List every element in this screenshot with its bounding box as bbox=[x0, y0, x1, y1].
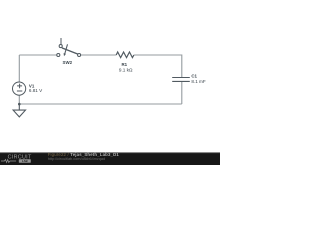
svg-text:8.1 mF: 8.1 mF bbox=[191, 79, 205, 84]
svg-text:9.1 kΩ: 9.1 kΩ bbox=[119, 67, 133, 72]
junction node dot bbox=[18, 103, 21, 106]
resistor R1 bbox=[116, 52, 134, 58]
wire V1 minus terminal to bottom rail bbox=[18, 95, 20, 104]
switch SW2 bbox=[57, 38, 81, 57]
svg-text:LAB: LAB bbox=[22, 159, 28, 163]
svg-text:http://circuitlab.com/c8kb64mz: http://circuitlab.com/c8kb64mzqad bbox=[48, 157, 105, 161]
wire left vertical (top node down to V1 plus terminal) bbox=[18, 55, 20, 82]
wire C1 bottom plate down to bottom-right corner bbox=[181, 82, 183, 105]
svg-text:SW2: SW2 bbox=[63, 60, 73, 65]
footer bar bbox=[0, 153, 220, 166]
wire top-left segment (node to SW2 left terminal) bbox=[19, 54, 56, 56]
CircuitLab logo LAB box bbox=[19, 159, 31, 162]
svg-text:C1: C1 bbox=[191, 74, 197, 79]
svg-text:6.81 V: 6.81 V bbox=[29, 88, 43, 93]
wire SW2 right terminal to R1 left lead bbox=[81, 54, 117, 56]
wire bottom rail bbox=[19, 103, 182, 105]
CircuitLab logo squiggle bbox=[1, 160, 16, 163]
ground bbox=[13, 104, 25, 117]
voltage source V1 bbox=[13, 82, 26, 95]
capacitor C1 bbox=[172, 78, 190, 82]
wire R1 right lead to top-right corner down to C1 top plate bbox=[134, 55, 182, 77]
